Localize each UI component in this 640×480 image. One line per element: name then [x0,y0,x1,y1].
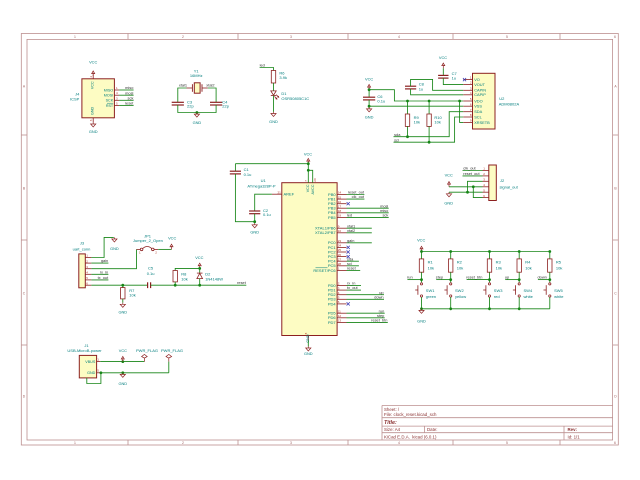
power symbol VCC (J1) [121,356,124,361]
svg-text:xtal1: xtal1 [179,83,187,88]
wire net mosi [347,207,389,209]
svg-text:gain: gain [101,258,108,263]
U1 pin 25 PC2 [337,251,346,253]
svg-text:reset: reset [125,101,135,106]
svg-text:SW2: SW2 [455,288,464,293]
wire C8 top to U2 CAPIN [411,79,464,90]
junction R9 top [406,100,409,103]
svg-text:SCL: SCL [474,114,482,119]
U2 pin 7 SDA [463,111,472,113]
ground symbol (R7) [120,303,125,308]
U1 pin 5 PD3 [337,298,346,300]
wire VCC to C7 [442,68,444,75]
J3 pin 5 [85,279,91,281]
wire C8 bottom to U2 CAPIP [411,89,464,95]
svg-text:red: red [494,294,500,299]
IC U1 body [282,183,337,336]
wire gnd to J2 pin 3 [468,181,483,192]
svg-text:R1: R1 [428,260,434,265]
power symbol VCC (switches) [420,246,423,251]
U1 pin 12 PD6 [337,317,346,319]
power flag 2 [166,354,172,361]
svg-text:4: 4 [398,441,400,445]
no-connect U1 pin 25 [347,250,350,253]
svg-text:2: 2 [182,441,184,445]
wire net xtal2 [347,232,372,234]
svg-text:SCK: SCK [106,99,114,103]
resistor R4 [518,252,520,259]
svg-text:reset_out: reset_out [463,171,480,176]
svg-text:VOUT: VOUT [474,82,485,87]
wire net reset [347,269,361,271]
svg-text:VCC: VCC [445,173,453,178]
ground symbol (D1) [271,112,276,117]
wire net rx_in [347,285,362,287]
junction J2 vcc [472,185,475,188]
U2 pin 6 VSS [463,105,472,107]
svg-text:10k: 10k [434,120,440,125]
wire D2 to reset net [199,279,201,286]
connector J2 body [489,165,497,201]
wire switch gnd rail [422,308,550,310]
svg-text:gain: gain [347,238,354,243]
wire R5 to SW5 [549,272,551,282]
ground symbol (crystal) [194,113,199,118]
capacitor C7 [438,75,448,78]
diode D2 [197,273,203,279]
wire J3 pin3 to JP1 [91,249,136,268]
junction sda R9 [406,135,409,138]
svg-text:Id: 1/1: Id: 1/1 [568,434,581,439]
J3 pin 1 [85,257,91,259]
connector J3 body [79,254,86,288]
svg-text:VSS: VSS [474,104,482,109]
svg-text:sda: sda [394,132,401,137]
wire vcc to R8 [175,268,200,270]
svg-text:GND: GND [89,129,98,134]
svg-text:15: 15 [338,195,342,199]
U1 pin 11 PD5 [337,312,346,314]
wire net miso [347,212,389,214]
wire reset_out to J2 [463,175,483,177]
svg-text:down: down [538,275,547,280]
power symbol VCC (C7) [442,63,445,68]
power symbol VCC (U1) [307,159,310,164]
svg-text:2: 2 [182,35,184,39]
svg-text:C5: C5 [148,266,154,271]
J4 pin 2 VCC [92,75,94,79]
wire net miso [119,89,134,91]
svg-text:ATmega328P-P: ATmega328P-P [247,183,275,188]
J2 pin 2 [483,175,489,177]
svg-text:R5: R5 [556,260,562,265]
wire SW4 to gnd rail [518,297,520,309]
J3 pin 2 [85,262,91,264]
wire SW5 to gnd rail [549,297,551,309]
svg-text:up: up [505,275,509,280]
svg-text:19: 19 [338,214,342,218]
frame zone numbers and letters [23,35,618,445]
ground symbol (C2) [252,223,257,228]
U1 pin 15 PB1 [337,198,346,200]
no-connect U2 pin 1 [463,78,466,81]
junction vcc rail col 1 [420,250,423,253]
wire VCC to J2 pin 4 [449,186,483,188]
wire J3 pin1 to gnd [91,237,113,257]
U2 pin 2 VOUT [463,84,472,86]
svg-text:4: 4 [398,35,400,39]
switch SW5 [544,283,551,297]
resistor R2 [450,252,452,259]
J4 pin 1 MISO [114,89,119,91]
svg-text:MISO: MISO [104,88,114,92]
svg-text:File: clock_reset.kicad_sch: File: clock_reset.kicad_sch [384,412,437,417]
svg-text:GND: GND [118,381,127,386]
svg-text:clk_out: clk_out [352,194,365,199]
capacitor C1 [234,164,236,172]
svg-text:PD4: PD4 [328,301,337,306]
U1 pin 28 PC5 [337,265,346,267]
junction gnd rail col 1 [420,307,423,310]
capacitor C3 [172,102,184,105]
svg-text:18: 18 [338,209,342,213]
wire switch vcc rail [422,251,550,253]
ground symbol (J1) [120,373,125,378]
junction net run [420,278,423,281]
svg-text:1N4148W: 1N4148W [205,276,223,281]
junction scl R10 [428,141,431,144]
wire sda to U2 SDA [394,112,464,137]
svg-text:run: run [407,275,413,280]
wire VCC down to pins [307,164,309,183]
ground symbol (U1) [306,346,311,351]
power symbol VCC (J2) [448,182,451,187]
capacitor C6 [363,97,375,100]
power flag 1 [142,354,148,361]
svg-text:XTAL2/PB7: XTAL2/PB7 [315,230,336,235]
svg-text:1u: 1u [419,87,423,92]
svg-text:KiCad E.D.A. kicad (6.0.1): KiCad E.D.A. kicad (6.0.1) [384,434,437,439]
no-connect U1 pin 26 [347,255,350,258]
capacitor C5 [148,282,151,288]
wire net mosi [119,94,134,96]
resistor R9 [407,101,409,114]
svg-text:xtal2: xtal2 [347,228,355,233]
svg-text:Size: A4: Size: A4 [384,427,401,432]
wire net down [538,279,550,281]
svg-text:Date:: Date: [427,427,438,432]
wire net reset_out [347,194,365,196]
svg-text:14: 14 [338,191,342,195]
svg-text:22p: 22p [222,104,229,109]
wire R1 to SW1 [421,272,423,282]
svg-text:GND: GND [365,114,374,119]
switch SW1 [415,283,422,297]
switch SW4 [513,283,520,297]
svg-text:5: 5 [506,441,508,445]
wire U1 gnd [307,341,309,347]
resistor R5 [549,252,551,259]
wire C1 to VCC U1 [235,163,308,165]
wire crystal left to C3 [178,88,187,102]
U1 pin 6 PD4 [337,303,346,305]
svg-text:Sheet: /: Sheet: / [384,407,400,412]
wire net sck [347,216,389,218]
junction U1 VCC [307,162,310,165]
wire net tx_out [347,289,362,291]
U1 pin 26 PC3 [337,256,346,258]
U2 pin 1 VO [463,79,472,81]
junction J2 gnd [466,191,469,194]
J4 pin 3 SCK [114,99,119,101]
junction vcc rail col 4 [518,250,521,253]
wire net sda [347,260,359,262]
svg-text:13: 13 [338,319,342,323]
resistor R8 [173,271,177,282]
junction vcc rail col 5 [548,250,551,253]
no-connect U1 pin 6 [347,302,350,305]
wire R2 to SW2 [450,272,452,282]
svg-text:Jumper_2_Open: Jumper_2_Open [133,238,163,243]
svg-text:GND: GND [118,310,127,315]
wire net sck [119,99,134,101]
svg-text:MOSI: MOSI [104,94,113,98]
junction VCC C6 [368,88,371,91]
wire VCC over to VDO rail [369,90,463,101]
svg-text:reset_btn: reset_btn [371,318,387,323]
U1 pin 27 PC4 [337,260,346,262]
wire led to R6 [260,68,274,71]
svg-text:GND: GND [444,200,453,205]
power symbol VCC (JP1) [170,244,173,249]
svg-text:GND: GND [417,319,426,324]
svg-text:GND: GND [193,120,202,125]
wire VBUS to PWR_FLAG [100,361,144,363]
svg-text:GND: GND [90,106,94,115]
ground symbol (switches) [419,309,424,314]
svg-text:10k: 10k [525,266,531,271]
svg-text:rx_in: rx_in [100,269,108,274]
junction net reset_btn [488,278,491,281]
svg-text:PD7: PD7 [328,320,337,325]
U1 pin 9 XTAL1/PB6 [337,227,346,229]
svg-text:27: 27 [338,257,342,261]
wire net step [347,317,385,319]
wire net gain [91,262,108,264]
svg-text:16: 16 [338,200,342,204]
wire C3 C4 to ground rail [178,105,216,113]
svg-text:tx_out: tx_out [347,285,359,290]
svg-text:signal_out: signal_out [500,184,519,189]
U1 pin 14 PB0 [337,194,346,196]
wire C6 to gnd [368,100,370,107]
junction net step [449,278,452,281]
capacitor C8 [405,86,416,89]
svg-text:RESET/PC6: RESET/PC6 [313,268,336,273]
svg-text:SW5: SW5 [554,288,563,293]
wire net run [407,279,421,281]
U1 pin 19 PB5 [337,216,346,218]
svg-text:6: 6 [614,35,616,39]
svg-text:20: 20 [313,178,317,182]
svg-text:0.1u: 0.1u [244,172,252,177]
J4 pin 5 RST [114,104,119,106]
J2 pin 3 [483,180,489,182]
svg-text:RST: RST [106,104,114,108]
wire R9 to sda net [407,126,409,136]
capacitor C4 [210,102,222,105]
wire net tx_out [91,279,108,281]
junction AVCC branch [307,169,310,172]
wire SW3 to gnd rail [489,297,491,309]
U1 pin 10 XTAL2/PB7 [337,232,346,234]
svg-text:xtal2: xtal2 [206,83,214,88]
J2 pin 6 [483,197,489,199]
ground symbol (C6) [367,107,372,112]
svg-text:reset_btn: reset_btn [466,275,482,280]
wire C2 to gnd [254,214,256,224]
wire net run [347,312,385,314]
power symbol VCC (R8/D2) [198,263,201,268]
svg-text:21: 21 [277,190,281,194]
wire crystal right to C4 [208,88,216,102]
svg-text:10k: 10k [181,276,187,281]
U2 pin 4 CAPIP [463,94,472,96]
svg-text:10k: 10k [496,266,502,271]
svg-text:10: 10 [338,229,342,233]
svg-text:SW3: SW3 [494,288,503,293]
ground symbol (J2) [446,192,451,197]
svg-text:10k: 10k [428,266,434,271]
J1 pin 1 VBUS [97,361,101,363]
svg-text:24: 24 [338,244,342,248]
U2 pin 8 SCL [463,116,472,118]
svg-text:GND: GND [87,371,96,375]
wire net xtal1 [347,227,372,229]
wire net step [436,279,451,281]
junction gnd symbol J1 [121,371,124,374]
svg-text:6: 6 [614,441,616,445]
svg-text:VCC: VCC [119,348,127,353]
junction crystal gnd [196,111,199,114]
wire AREF to C2 [255,194,272,211]
svg-text:step: step [436,275,443,280]
svg-text:12: 12 [338,314,342,318]
U1 pin 23 PC0 [337,242,346,244]
wire R10 to scl net [428,126,430,142]
svg-text:USB-MicroB-power: USB-MicroB-power [67,348,102,353]
svg-text:white: white [554,294,564,299]
resistor R3 [489,252,491,259]
svg-text:3: 3 [290,35,292,39]
J4 pin 6 GND [92,118,94,123]
svg-text:22p: 22p [187,104,194,109]
connector J4 body [82,79,115,118]
svg-text:11: 11 [338,309,341,313]
svg-text:17: 17 [338,204,342,208]
junction gnd rail col 4 [518,307,521,310]
capacitor C2 [249,211,260,214]
svg-text:16MHz: 16MHz [190,73,203,78]
svg-text:tx_out: tx_out [98,275,110,280]
junction R8 D2 vcc [198,267,201,270]
svg-text:led: led [260,63,265,68]
junction net down [548,278,551,281]
svg-text:AREF: AREF [284,192,295,197]
junction D2 bottom [198,284,201,287]
svg-text:OSR50805C1C: OSR50805C1C [281,96,309,101]
svg-text:3: 3 [290,441,292,445]
junction gnd rail col 2 [449,307,452,310]
U2 pin 9 XRSETB [463,121,472,123]
svg-text:reset: reset [237,280,247,285]
power symbol VCC (J4) [92,71,95,76]
svg-text:VCC: VCC [365,77,373,82]
no-connect U1 pin 24 [347,246,350,249]
U2 pin 5 VDO [463,100,472,102]
svg-text:10k: 10k [414,120,420,125]
U1 pin 1 RESET/PC6 [337,269,346,271]
power symbol VCC (C6) [368,85,371,90]
svg-text:white: white [524,294,534,299]
title block text [384,407,580,440]
svg-text:ADM0802A: ADM0802A [499,102,520,107]
U2 pin 3 CAPIN [463,89,472,91]
svg-text:VCC: VCC [417,237,425,242]
svg-text:VCC: VCC [89,60,97,65]
U1 pin 24 PC1 [337,246,346,248]
wire net up [505,279,519,281]
svg-text:VCC: VCC [439,55,447,60]
wire C7 to U2 VOUT [443,78,463,85]
resistor R1 [421,252,423,259]
U1 pin 3 PD1 [337,289,346,291]
junction R7 [121,284,124,287]
U1 pin 21 AREF [272,193,282,195]
svg-text:VCC: VCC [90,81,94,89]
U1 pin 8 GND [307,336,309,341]
wire net scl [347,265,359,267]
svg-text:SDA: SDA [474,109,482,114]
wire J1 gnd net [100,372,169,374]
wire AVCC branch [308,170,312,182]
junction vcc rail col 2 [449,250,452,253]
svg-text:3.9k: 3.9k [279,75,287,80]
svg-text:CAPIP: CAPIP [474,92,486,97]
svg-text:reset: reset [347,266,357,271]
wire net rx_in [91,273,108,275]
wire C1 to gnd rail [235,174,254,222]
junction XRSETB drop [458,100,461,103]
wire net gain [347,242,372,244]
wire D1 to gnd [273,96,275,112]
J2 pin 5 [483,191,489,193]
wire R3 to SW3 [489,272,491,282]
svg-text:1: 1 [74,441,76,445]
svg-text:led: led [347,213,352,218]
J4 pin 4 MOSI [114,94,119,96]
svg-text:28: 28 [338,262,342,266]
svg-text:VCC: VCC [195,255,203,260]
wire net reset [119,104,134,106]
title block [382,406,613,441]
svg-text:10k: 10k [556,266,562,271]
junction net up [518,278,521,281]
svg-text:PWR_FLAG: PWR_FLAG [161,348,183,353]
LED D1 [271,91,279,99]
J3 pin 6 [85,284,91,286]
svg-text:VCC: VCC [306,184,310,192]
